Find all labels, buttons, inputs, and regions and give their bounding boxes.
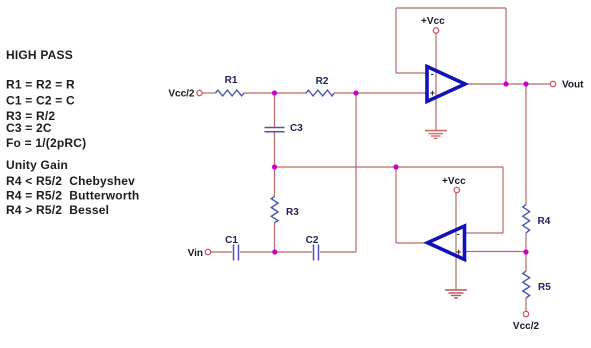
- svg-text:C1: C1: [225, 235, 238, 246]
- node C junction C1/C2/R3: [272, 249, 277, 254]
- svg-text:+Vcc: +Vcc: [421, 16, 445, 27]
- wire U1 feedback left vertical: [395, 8, 397, 73]
- terminal Vin: [205, 249, 210, 254]
- wire U1 feedback right vertical: [505, 8, 507, 84]
- svg-text:R5: R5: [538, 282, 551, 293]
- terminal +Vcc U1: [433, 28, 438, 33]
- svg-text:R3: R3: [286, 207, 299, 218]
- ground GND1 under U1: [425, 131, 447, 139]
- svg-text:HIGH PASS: HIGH PASS: [6, 48, 73, 62]
- svg-text:R1 = R2 = R: R1 = R2 = R: [6, 78, 75, 92]
- wire into U1 - input: [396, 72, 427, 74]
- wire R4 to node E: [525, 233, 527, 252]
- terminal Vcc/2 left: [197, 90, 202, 95]
- capacitor C2: [314, 245, 319, 261]
- svg-text:-: -: [457, 229, 460, 239]
- wire C3 to node B: [274, 132, 276, 197]
- capacitor C1: [234, 245, 239, 261]
- node F junction R2/U1+/riser: [353, 90, 358, 95]
- wire U1 +Vcc supply drop: [435, 34, 437, 131]
- wire U2 output to riser: [396, 242, 428, 244]
- svg-text:C3: C3: [290, 123, 303, 134]
- capacitor C3: [265, 128, 285, 132]
- wire Vcc/2 to R1: [203, 92, 216, 94]
- wire U2 +Vcc supply drop: [455, 193, 457, 290]
- wire R5 to Vcc/2 terminal: [525, 298, 527, 311]
- wire C2 to riser: [320, 251, 356, 253]
- wire U2 + input to R4 R5 node: [465, 251, 527, 253]
- svg-text:R4 = R5/2 Butterworth: R4 = R5/2 Butterworth: [6, 189, 139, 203]
- resistor R3: [271, 197, 278, 223]
- svg-text:R4 > R5/2 Bessel: R4 > R5/2 Bessel: [6, 203, 109, 217]
- wire C1 to C2 through node C: [240, 251, 312, 253]
- svg-text:-: -: [431, 69, 434, 79]
- svg-text:Fo = 1/(2pRC): Fo = 1/(2pRC): [6, 136, 86, 150]
- svg-text:Vout: Vout: [562, 80, 584, 91]
- terminal Vout: [550, 81, 555, 86]
- svg-text:Unity Gain: Unity Gain: [6, 158, 68, 172]
- wire U1 output to Vout: [465, 83, 550, 85]
- wire riser C2 up to U1 + input net: [355, 93, 357, 252]
- svg-text:C3 = 2C: C3 = 2C: [6, 121, 52, 135]
- svg-text:Vin: Vin: [188, 248, 203, 259]
- svg-text:Vcc/2: Vcc/2: [168, 89, 195, 100]
- node E junction R4/R5/U2+: [523, 249, 528, 254]
- svg-text:R4: R4: [538, 216, 551, 227]
- node H junction output/R4 branch: [523, 81, 528, 86]
- node D junction U2 output/feedback rail: [393, 164, 398, 169]
- svg-text:+: +: [456, 247, 461, 257]
- wire into U2 - input: [465, 232, 504, 234]
- op-amp U1: [427, 67, 465, 102]
- op-amp U2: [428, 226, 465, 260]
- resistor R5: [523, 271, 530, 298]
- wire lower feedback right vertical: [502, 167, 504, 233]
- resistor R1: [216, 90, 245, 96]
- wire node D down to U2 output: [395, 167, 397, 243]
- wire Vin to C1: [211, 251, 232, 253]
- svg-text:R4 < R5/2 Chebyshev: R4 < R5/2 Chebyshev: [6, 174, 135, 188]
- node B junction C3/R3/feedback: [272, 164, 277, 169]
- wire R1 to R2 through node A: [244, 92, 306, 94]
- wire U1 feedback top rail: [396, 7, 506, 9]
- svg-text:Vcc/2: Vcc/2: [513, 321, 540, 332]
- svg-text:R2: R2: [316, 76, 329, 87]
- svg-text:C2: C2: [306, 235, 319, 246]
- svg-text:+: +: [430, 88, 435, 98]
- resistor R2: [306, 90, 334, 96]
- wire R2 to op-amp U1 + input: [334, 92, 427, 94]
- resistor R4: [523, 205, 530, 234]
- ground GND2 under U2: [445, 290, 467, 298]
- svg-text:R1: R1: [225, 75, 238, 86]
- node G junction U1 output/feedback: [503, 81, 508, 86]
- wire node B to lower feedback corner: [275, 166, 504, 168]
- svg-text:C1 = C2 = C: C1 = C2 = C: [6, 94, 75, 108]
- wire Vout node down to R4: [525, 84, 527, 205]
- node A junction R1/R2/C3: [272, 90, 277, 95]
- wire node E to R5: [525, 252, 527, 271]
- terminal +Vcc U2: [454, 187, 459, 192]
- wire node A down to C3: [274, 93, 276, 127]
- terminal Vcc/2 bottom: [523, 311, 528, 316]
- svg-text:+Vcc: +Vcc: [442, 176, 466, 187]
- wire R3 to node C: [274, 223, 276, 253]
